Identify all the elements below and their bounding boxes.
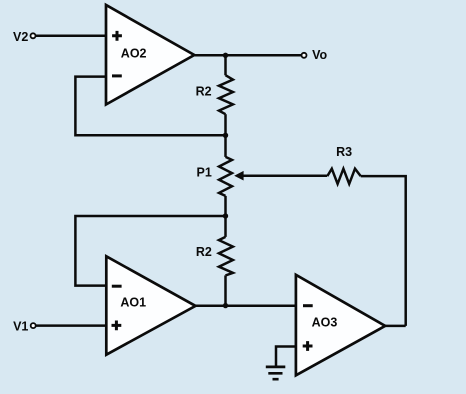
svg-text:P1: P1 <box>197 166 212 180</box>
svg-text:AO3: AO3 <box>312 316 338 330</box>
op-amp AO3 <box>296 275 385 376</box>
pin + of AO2 <box>112 31 122 41</box>
wire junction down to R2 <box>224 55 227 75</box>
wire V2 to AO2 + input <box>36 35 107 38</box>
wire P1 to junction below <box>224 196 227 216</box>
resistor R3 <box>327 169 360 184</box>
wire R2 to junction <box>224 114 227 135</box>
node V1 terminal <box>31 323 36 328</box>
svg-text:R2: R2 <box>196 85 212 99</box>
wire junction down to R2 bottom <box>224 216 227 237</box>
P1 wiper arrow <box>234 171 243 181</box>
svg-text:R2: R2 <box>196 245 212 259</box>
wire AO1 output to AO3 - input <box>196 304 296 307</box>
ground <box>266 367 286 379</box>
node junction below P1 <box>223 213 228 218</box>
wire wiper to R3 <box>243 174 327 177</box>
node Vo terminal <box>302 53 307 58</box>
node V2 terminal <box>31 33 36 38</box>
svg-text:AO2: AO2 <box>121 46 147 60</box>
svg-text:V1: V1 <box>13 320 28 334</box>
node junction at AO1 output <box>223 303 228 308</box>
resistor R2 (bottom) <box>219 237 233 276</box>
node junction above P1 <box>223 133 228 138</box>
pin + of AO1 <box>112 321 122 331</box>
wire feedback AO1 inverting input <box>75 216 225 286</box>
wire V1 to AO1 + input <box>36 324 107 327</box>
pin - of AO1 <box>112 285 122 288</box>
svg-text:V2: V2 <box>13 30 28 44</box>
wire AO3 output <box>385 325 406 328</box>
svg-text:AO1: AO1 <box>120 296 146 310</box>
pin - of AO2 <box>112 74 122 77</box>
node junction at AO2 output <box>223 53 228 58</box>
wire R2 bottom to output node <box>224 275 227 305</box>
wire AO3 + input to ground <box>276 347 296 367</box>
op-amp AO2 <box>106 5 194 105</box>
wire R3 to AO3 output, right vertical <box>361 176 406 326</box>
wire junction to P1 <box>224 135 227 157</box>
op-amp AO1 <box>106 256 195 354</box>
wire feedback AO2 inverting input <box>75 77 225 136</box>
pin + of AO3 <box>303 341 313 351</box>
potentiometer P1 <box>219 157 232 196</box>
svg-text:Vo: Vo <box>312 48 327 62</box>
wire AO2 output to Vo <box>194 54 301 57</box>
pin - of AO3 <box>303 304 313 307</box>
resistor R2 (top) <box>219 75 233 114</box>
svg-text:R3: R3 <box>336 145 352 159</box>
